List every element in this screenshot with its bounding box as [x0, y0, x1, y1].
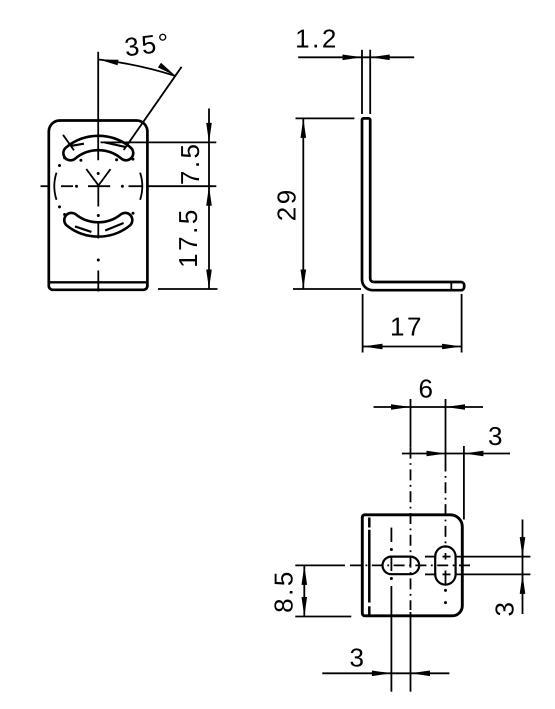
svg-text:17.5: 17.5: [173, 207, 203, 268]
svg-text:3: 3: [488, 421, 505, 451]
svg-text:3: 3: [350, 643, 367, 673]
svg-text:29: 29: [272, 187, 302, 221]
svg-text:7.5: 7.5: [175, 141, 205, 185]
svg-text:6: 6: [419, 374, 436, 404]
svg-text:1.2: 1.2: [295, 24, 339, 54]
svg-text:8.5: 8.5: [269, 569, 299, 613]
svg-text:17: 17: [390, 312, 424, 342]
svg-text:35°: 35°: [123, 27, 173, 62]
svg-text:3: 3: [490, 600, 520, 617]
